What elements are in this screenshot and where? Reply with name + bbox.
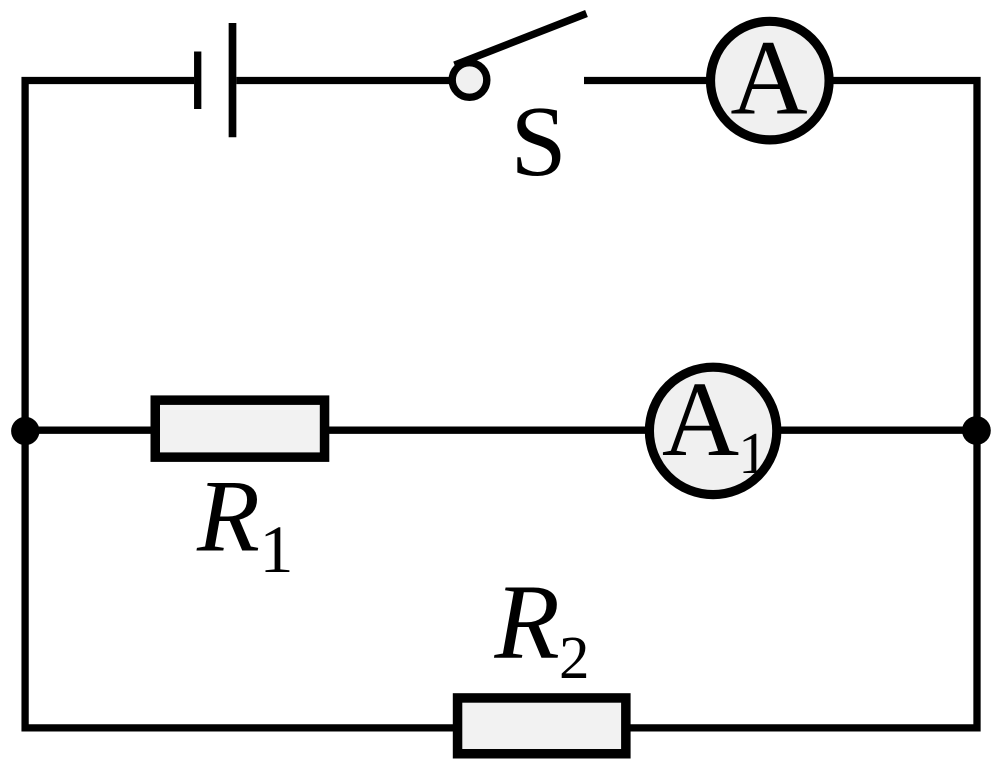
ammeter A1: circle: [649, 367, 776, 494]
svg-text:R: R: [494, 564, 560, 682]
resistor R1: body: [155, 400, 324, 457]
resistor R2: body: [458, 698, 626, 754]
battery cell: long positive plate: [229, 23, 237, 137]
svg-text:1: 1: [260, 511, 294, 587]
svg-text:1: 1: [738, 420, 768, 486]
node: right junction dot: [962, 416, 991, 445]
switch S: pivot circle: [452, 63, 487, 98]
svg-text:A: A: [662, 361, 739, 479]
svg-text:A: A: [730, 20, 807, 138]
wire: middle branch: [25, 427, 977, 434]
wire: battery to switch segment: [236, 77, 460, 84]
ammeter A: circle: [711, 21, 830, 140]
battery cell: short negative plate: [194, 52, 201, 110]
svg-text:R: R: [196, 459, 260, 573]
node: left junction dot: [11, 417, 39, 445]
svg-text:2: 2: [559, 625, 590, 692]
switch S: blade: [455, 14, 587, 66]
svg-text:S: S: [511, 85, 567, 197]
